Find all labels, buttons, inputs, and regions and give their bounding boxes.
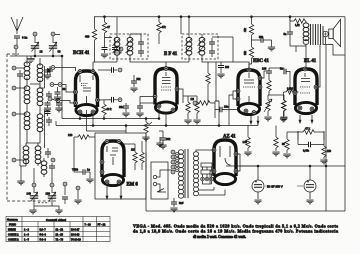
res 140 — [246, 137, 250, 148]
mains box — [151, 162, 168, 199]
svg-text:25n: 25n — [119, 105, 124, 109]
osc secondary coil — [41, 161, 47, 174]
cap row3 — [46, 120, 52, 122]
top B+ rail — [94, 16, 345, 18]
cluster cap b — [55, 92, 61, 94]
svg-text:7 - 20: 7 - 20 — [85, 223, 92, 226]
lamp resistor box a — [201, 163, 212, 167]
transformer primary winding — [178, 150, 183, 198]
svg-text:5-8- 9: 5-8- 9 — [40, 233, 47, 236]
ground terminal — [76, 186, 80, 190]
tube EBC41 — [238, 70, 260, 115]
svg-text:50 HF 350 V: 50 HF 350 V — [267, 185, 283, 189]
res 22k — [102, 104, 106, 115]
AZ41 pin right 1 — [234, 152, 238, 156]
svg-text:130: 130 — [68, 133, 73, 137]
EBC41 left pin stubs — [229, 91, 238, 126]
svg-text:Contatti chiusi: Contatti chiusi — [46, 218, 66, 222]
svg-text:47 k: 47 k — [305, 127, 311, 131]
table — [6, 217, 110, 242]
tuning varcap 190 — [50, 183, 54, 187]
terminal trimmer 60 — [51, 32, 55, 36]
diode branch wire — [216, 62, 219, 101]
svg-text:71 - 73: 71 - 73 — [56, 238, 64, 241]
tuning varcap 140 — [32, 183, 36, 187]
svg-text:5,6- 7: 5,6- 7 — [40, 228, 47, 231]
IFT2 cap a — [209, 42, 215, 44]
coil bank row3 — [12, 112, 16, 116]
cap 50k w gnd — [131, 81, 137, 83]
res below EF41 a — [186, 102, 190, 113]
feedback right res — [322, 146, 326, 157]
svg-text:76-10-19: 76-10-19 — [71, 238, 81, 241]
IFT1 coil b — [127, 37, 133, 55]
svg-text:6 kn: 6 kn — [22, 36, 28, 40]
svg-text:MEDIE: MEDIE — [8, 228, 16, 231]
EBC41 pin right 2 — [258, 85, 262, 89]
det cap right of ECH — [112, 97, 114, 103]
ECH41 electrodes — [80, 75, 93, 104]
EL41 pin left — [293, 91, 297, 95]
osc cap row4 — [45, 152, 51, 154]
EL41 electrodes — [300, 73, 310, 93]
trimmer cap T500 — [83, 169, 85, 175]
ECH41 pin right — [96, 98, 100, 102]
svg-text:16-8-17: 16-8-17 — [71, 228, 80, 231]
svg-text:1M: 1M — [191, 98, 194, 101]
EL41 pin bottom b — [310, 107, 314, 111]
terminal trimmer 18 — [33, 32, 37, 36]
IFT2 coil a — [186, 37, 192, 55]
EBC41 pin bottom a — [244, 109, 248, 113]
svg-text:1,2k: 1,2k — [295, 24, 300, 27]
series res to pot — [199, 101, 210, 105]
svg-text:500: 500 — [259, 36, 264, 39]
svg-text:11 - 12: 11 - 12 — [56, 228, 64, 231]
cap row1 — [17, 74, 23, 76]
cap 10n — [220, 107, 222, 113]
transformer secondary winding — [193, 152, 198, 196]
ECH41 pin top b — [91, 70, 95, 74]
svg-text:Gamma: Gamma — [7, 218, 18, 222]
antenna series capacitor — [14, 36, 20, 38]
demod cap 100 — [218, 66, 224, 68]
EBC41 pin left 1 — [236, 89, 240, 93]
cluster cap a — [45, 70, 51, 72]
AZ41 pin left 2 — [212, 169, 216, 173]
EM6 electrodes — [107, 146, 118, 165]
svg-text:5nF: 5nF — [179, 201, 184, 205]
IFT2 tuning arrows — [185, 39, 205, 54]
res 130 to EM6 — [78, 135, 89, 139]
cluster cap d — [56, 103, 62, 105]
svg-text:FT - 22: FT - 22 — [98, 223, 106, 226]
svg-text:E F 41: E F 41 — [164, 52, 178, 57]
AZ41 electrodes — [220, 146, 231, 165]
rail drop to IFT2 — [180, 17, 182, 34]
svg-text:100: 100 — [262, 67, 267, 71]
svg-text:47k: 47k — [162, 25, 167, 29]
EM6 pin left 1 — [100, 160, 104, 164]
EL41 pin right — [314, 85, 318, 89]
mains cap 5nF — [171, 202, 177, 204]
antenna terminal — [14, 45, 18, 49]
EM6 pin top b — [117, 140, 121, 144]
lamp resistor box b — [201, 170, 212, 174]
EL41 pin top — [303, 67, 307, 71]
EM6 pin bottom b — [117, 180, 121, 184]
wire — [15, 49, 17, 56]
ECH41 pin left 2 — [74, 101, 78, 105]
feedback left res — [285, 139, 289, 150]
EM6 res a — [133, 152, 137, 163]
svg-text:1M: 1M — [131, 149, 134, 152]
trimmer cap 60 — [49, 42, 57, 52]
electrolytic cap 1 — [252, 180, 264, 192]
cap near EF pin — [137, 106, 143, 108]
wire — [34, 36, 36, 43]
EM6 res b — [140, 152, 144, 163]
field resistor — [294, 19, 305, 23]
right frame edge — [344, 17, 346, 211]
heater wires — [199, 187, 225, 195]
gang ground right — [55, 210, 62, 214]
gang ground left — [29, 210, 36, 214]
AZ41 plate wires — [196, 150, 258, 184]
svg-text:150: 150 — [327, 150, 332, 153]
svg-text:0,5M: 0,5M — [287, 87, 293, 91]
terminal right — [119, 47, 123, 51]
EBC41 electrodes — [243, 73, 255, 104]
svg-text:11 - 13: 11 - 13 — [56, 233, 64, 236]
EBC41 pin bottom b — [252, 111, 256, 115]
trimmer cap 18 — [31, 42, 39, 52]
frame left vertical — [145, 152, 147, 211]
cap 30n — [160, 138, 166, 140]
EBC41 pin left 2 — [236, 97, 240, 101]
coil box internal bus b — [40, 66, 45, 148]
EL41 heater arrows — [299, 115, 302, 124]
EM6 pin left 2 — [100, 170, 104, 174]
electrolytic cap 2 — [304, 180, 316, 192]
IFT1 can — [110, 34, 148, 59]
svg-text:22 k: 22 k — [107, 107, 113, 111]
AZ41 pin left 1 — [212, 148, 216, 152]
svg-text:400: 400 — [85, 35, 90, 39]
svg-text:T500: T500 — [72, 168, 78, 172]
grid res 0,5M — [286, 90, 297, 94]
cluster cap c — [45, 103, 51, 105]
EBC41 pin top — [247, 68, 251, 72]
EF41 pin top — [164, 67, 168, 71]
det terminal — [118, 98, 122, 102]
res 500k — [267, 80, 271, 91]
ECH41 pin left 1 — [74, 90, 78, 94]
power transformer core — [185, 149, 188, 198]
tube EM6 — [102, 141, 124, 186]
trimmer row1 right — [47, 69, 53, 71]
speaker voice coil — [323, 31, 329, 37]
volume pot — [144, 122, 148, 133]
B+ line junction dots — [257, 165, 259, 167]
svg-text:EBC 41: EBC 41 — [253, 59, 269, 64]
IFT1 coil a — [114, 37, 120, 55]
ECH41 left terminals — [51, 66, 55, 70]
dashed coil box — [7, 54, 58, 201]
EF41 pin bottom — [171, 108, 175, 112]
screen cap w ground — [102, 48, 108, 50]
resistor 2 EBC — [249, 47, 253, 58]
EL41 pin bottom a — [298, 106, 302, 110]
res right of AZ — [274, 137, 278, 148]
tube AZ41 — [214, 140, 236, 185]
EF41 pin left 1 — [153, 95, 157, 99]
bottom frame edge — [146, 210, 345, 212]
IFT1 tuning arrows — [113, 39, 133, 54]
speaker cone — [333, 20, 340, 47]
AVC bus 2 — [56, 101, 258, 126]
ECH41 pin top a — [78, 70, 82, 74]
feedback cap 0,47 — [309, 142, 311, 148]
ECH41 pin bottom a — [78, 110, 82, 114]
junction dots — [79, 118, 81, 120]
voltage selector terminals — [171, 150, 175, 154]
svg-text:30k: 30k — [166, 137, 171, 141]
osc cap + terminal upper — [112, 67, 114, 73]
screen feed wires EL — [249, 46, 296, 70]
coupling cap — [284, 69, 286, 75]
EF41 pin right — [175, 87, 179, 91]
oscillator coil row4 — [12, 158, 16, 162]
padder cap — [63, 182, 67, 186]
ECH41 pin bottom b — [91, 110, 95, 114]
output transformer primary — [303, 23, 309, 41]
svg-text:190: 190 — [46, 192, 51, 196]
res below EF41 b — [195, 102, 199, 113]
mains switch — [157, 189, 166, 193]
bypass cap 2 — [112, 48, 118, 50]
EF41 electrodes — [161, 72, 171, 90]
osc ground — [17, 181, 24, 185]
svg-text:16-9-18: 16-9-18 — [71, 233, 80, 236]
tube ECH41 — [76, 71, 98, 116]
feedback resistor 47k — [303, 130, 314, 134]
tube EF41 — [155, 69, 177, 114]
B+ line — [226, 165, 345, 167]
svg-text:EM 6: EM 6 — [127, 183, 139, 188]
IFT2 can — [182, 34, 218, 59]
svg-text:10n: 10n — [224, 105, 229, 109]
res below EBC b — [282, 100, 286, 111]
svg-text:0,47n: 0,47n — [303, 150, 310, 153]
cap 500 — [261, 37, 263, 43]
IFT2 cap b — [209, 51, 215, 53]
cluster wires — [52, 68, 76, 104]
wire EM6 to AVC — [87, 126, 127, 134]
svg-text:CORTE 1: CORTE 1 — [8, 233, 19, 236]
chassis ground — [156, 143, 163, 147]
plate resistor 47k — [157, 22, 161, 33]
gang frame wires — [34, 199, 59, 210]
dashed gang link — [38, 202, 48, 204]
coil box internal bus a — [20, 80, 26, 166]
EF41 pin left 2 — [157, 104, 161, 108]
wires below ECH41 — [80, 110, 93, 131]
resistor 400 — [92, 29, 96, 40]
svg-text:ECH 41: ECH 41 — [73, 51, 90, 56]
osc terminal right — [51, 158, 55, 162]
EL41 cathode res — [281, 100, 285, 111]
wires below EF41 — [159, 108, 166, 126]
cap row2 — [46, 94, 52, 96]
svg-text:di uscita 2 watt. Consumo 42 w: di uscita 2 watt. Consumo 42 watt. — [193, 235, 246, 239]
input terminal — [193, 101, 197, 105]
speaker wires — [296, 37, 345, 211]
feedback net left vert — [298, 131, 324, 140]
ground antenna bus — [27, 59, 34, 63]
EM6 pin top a — [105, 140, 109, 144]
IFT1 cap a — [138, 42, 144, 44]
cap 25n w gnd — [123, 106, 129, 108]
svg-text:CORTE 2: CORTE 2 — [8, 238, 19, 241]
osc grid link — [94, 56, 96, 62]
svg-text:1 - 5: 1 - 5 — [24, 238, 30, 241]
EBC41 heater arrows — [250, 116, 253, 125]
AZ41 pin right 2 — [234, 169, 238, 173]
diode line — [212, 37, 233, 62]
svg-text:VEGA - Mod. 465. Onde medie da: VEGA - Mod. 465. Onde medie da 520 a 162… — [133, 223, 338, 228]
wire bus y56 — [10, 55, 62, 57]
svg-text:1 - 2: 1 - 2 — [24, 228, 30, 231]
antenna — [11, 17, 23, 34]
screen resistor 47 — [102, 22, 106, 33]
row link wires — [27, 81, 40, 143]
mains plug pins — [153, 175, 156, 178]
svg-text:FONO: FONO — [9, 223, 16, 226]
svg-text:da 1,8 a 18,8 Mc/s. Onde corte: da 1,8 a 18,8 Mc/s. Onde corte da 16 a 1… — [133, 229, 338, 234]
plate cap 100 — [266, 71, 272, 73]
svg-text:100: 100 — [225, 66, 230, 69]
coil bank row1 — [12, 66, 16, 70]
svg-text:5-8- 9: 5-8- 9 — [40, 238, 47, 241]
IFT2 coil b — [199, 37, 205, 55]
tone cap 5n — [287, 32, 293, 34]
speaker magnet — [329, 29, 333, 39]
EM6 pin bottom a — [105, 180, 109, 184]
svg-text:1 - 3: 1 - 3 — [24, 233, 30, 236]
dial lamps — [201, 177, 205, 181]
output transformer core — [311, 24, 324, 45]
cluster cap e — [45, 112, 51, 114]
rail resistor EBC — [249, 24, 253, 35]
tube EL41 — [295, 69, 317, 114]
IFT1 cap b — [138, 51, 144, 53]
EM6 section box — [95, 133, 146, 199]
res below EBC a (volume pot) — [266, 100, 270, 111]
caption — [133, 223, 338, 239]
EBC41 pin right 1 — [258, 76, 262, 80]
coil bank row2 — [12, 86, 16, 90]
rail junction dots — [158, 16, 160, 18]
svg-text:140: 140 — [243, 140, 248, 144]
svg-text:140: 140 — [27, 192, 32, 196]
AVC bus 1 — [62, 56, 159, 119]
EM6 heater arrows — [106, 191, 109, 200]
osc secondary cap — [49, 166, 55, 168]
diode load resistor — [206, 73, 210, 84]
